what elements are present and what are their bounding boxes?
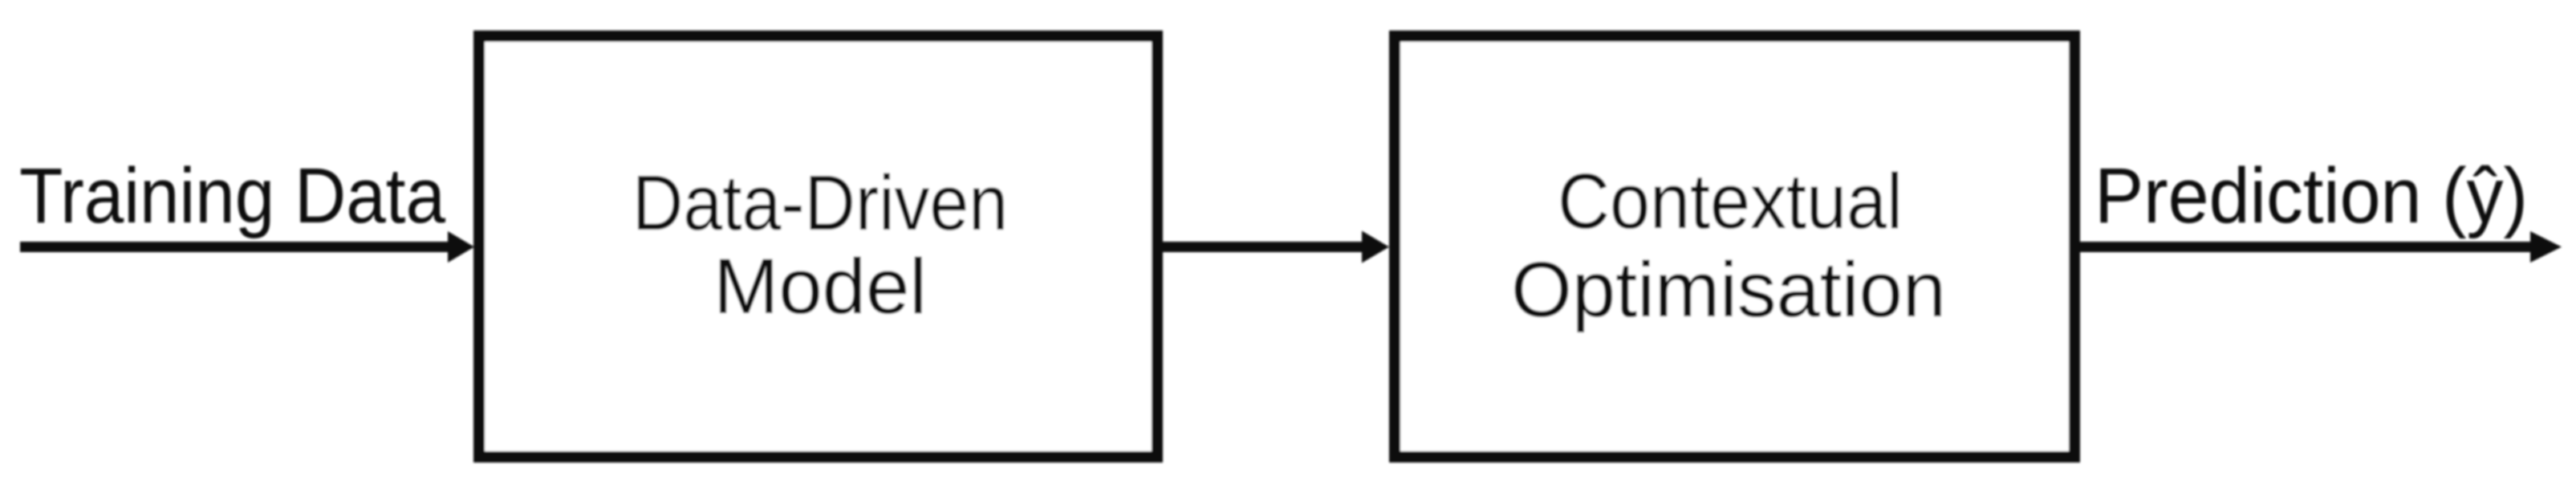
svg-text:Training Data: Training Data xyxy=(19,152,445,239)
svg-text:Optimisation: Optimisation xyxy=(1511,246,1946,333)
svg-text:Data-Driven: Data-Driven xyxy=(632,159,1008,246)
svg-text:Model: Model xyxy=(713,242,927,330)
svg-text:Contextual: Contextual xyxy=(1558,157,1903,245)
svg-text:Prediction (ŷ): Prediction (ŷ) xyxy=(2095,152,2528,239)
